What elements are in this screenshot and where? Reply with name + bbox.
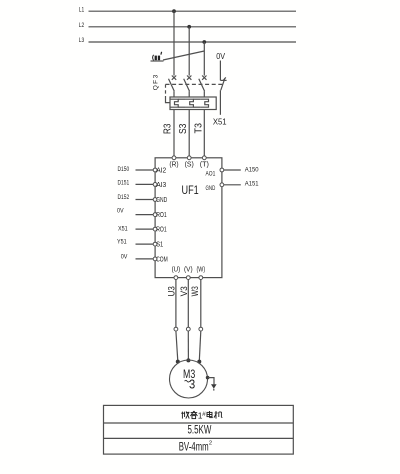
char dian <box>207 411 213 418</box>
terminal circle W3 <box>199 327 203 331</box>
wire D152 row3 <box>118 194 154 201</box>
svg-text:0V: 0V <box>216 52 225 61</box>
svg-text:A150: A150 <box>245 167 259 174</box>
thermal overload element box <box>170 97 216 110</box>
svg-text:#: # <box>202 411 206 418</box>
pin S1 row6 <box>153 242 163 249</box>
svg-text:S1: S1 <box>156 242 163 249</box>
wire 0V row7 <box>121 254 153 261</box>
svg-text:3: 3 <box>189 377 195 392</box>
svg-text:S3: S3 <box>178 123 189 134</box>
inverter UF1 body <box>155 158 222 278</box>
wire D150 row1 <box>118 166 154 173</box>
wire L3 to QF3 pole 3 <box>203 42 205 76</box>
QF3 linkage to thermal box <box>166 84 171 102</box>
svg-text:2: 2 <box>209 441 212 447</box>
wire L2 to QF3 pole 2 <box>188 27 190 76</box>
svg-text:(S): (S) <box>185 160 195 169</box>
ground <box>211 384 217 390</box>
svg-text:QF3: QF3 <box>152 74 159 90</box>
svg-text:A151: A151 <box>245 181 259 188</box>
svg-text:X51: X51 <box>213 117 227 126</box>
wire A151 <box>224 181 259 188</box>
trip linkage diagonal <box>163 51 204 60</box>
wire W3 to motor <box>199 331 201 361</box>
svg-text:D152: D152 <box>118 194 130 201</box>
svg-text:AI3: AI3 <box>156 182 166 189</box>
pin AO1 <box>206 168 224 177</box>
wire QF3 aux to X51 <box>219 90 221 115</box>
svg-text:0V: 0V <box>117 207 124 214</box>
table row1 value label motor name (CJK approximated) <box>181 411 222 421</box>
svg-text:AI2: AI2 <box>156 168 166 175</box>
breaker QF3 pole 3 contact <box>199 76 207 98</box>
wire U3 to motor <box>176 331 178 361</box>
junction dot L1 <box>172 9 176 13</box>
junction dot L2 <box>187 25 191 29</box>
svg-text:GND: GND <box>206 185 216 192</box>
ground wire <box>208 378 214 385</box>
wire R3 <box>173 110 175 158</box>
svg-text:U3: U3 <box>167 286 177 296</box>
wire L1 <box>89 10 297 12</box>
motor ground connection dot <box>206 376 210 380</box>
svg-text:BV-4mm: BV-4mm <box>179 441 209 454</box>
table row3 value label BV-4mm2 <box>179 441 212 454</box>
wire T3 <box>203 110 205 158</box>
breaker QF3 auxiliary contact <box>220 77 226 90</box>
motor connection dot U <box>176 360 180 364</box>
thermal element bridge 1 <box>178 99 185 107</box>
wire 0V to QF3 aux contact <box>219 61 221 81</box>
svg-text:(V): (V) <box>184 267 193 274</box>
motor M3 label <box>183 367 195 392</box>
svg-text:L2: L2 <box>79 22 85 29</box>
pin RO1 row5 <box>153 227 167 234</box>
svg-text:(U): (U) <box>172 267 181 274</box>
text 1# <box>198 411 206 421</box>
svg-text:D151: D151 <box>118 180 130 187</box>
svg-text:UF1: UF1 <box>182 183 199 197</box>
char juan <box>190 411 197 419</box>
svg-text:W3: W3 <box>190 286 200 296</box>
svg-text:(W): (W) <box>197 267 206 274</box>
svg-text:Y51: Y51 <box>117 238 127 245</box>
svg-text:5.5KW: 5.5KW <box>188 422 212 436</box>
svg-text:0V: 0V <box>121 254 128 261</box>
motor M3 body <box>170 360 208 398</box>
pin RO1 row4 <box>153 212 167 219</box>
spec table frame <box>104 405 294 454</box>
wire W3 <box>200 280 202 328</box>
svg-text:L1: L1 <box>79 6 85 13</box>
svg-text:AO1: AO1 <box>206 170 216 177</box>
char ji <box>214 411 222 419</box>
junction dot L3 <box>202 40 206 44</box>
thermal element pole 1 <box>170 99 178 107</box>
wire U3 <box>175 280 177 328</box>
svg-text:T3: T3 <box>194 123 205 134</box>
pin GND row3 <box>153 197 167 204</box>
svg-text:R3: R3 <box>163 123 174 134</box>
wire V3 to motor <box>187 331 189 361</box>
wire X51 row5 <box>118 225 153 232</box>
wire S3 <box>188 110 190 158</box>
svg-text:RO1: RO1 <box>156 212 167 219</box>
thermal element pole 2 <box>185 99 193 107</box>
char shou <box>181 411 189 418</box>
svg-text:GND: GND <box>156 197 167 204</box>
pin GND right <box>206 183 224 192</box>
breaker QF3 trip unit symbol Iu <box>151 52 164 61</box>
terminal (W) <box>197 267 206 280</box>
svg-text:COM: COM <box>156 256 168 263</box>
terminal (R) <box>169 156 179 169</box>
svg-text:X51: X51 <box>118 225 128 232</box>
breaker QF3 pole 1 contact <box>169 76 177 98</box>
pin AI2 row1 <box>153 168 166 175</box>
svg-text:(R): (R) <box>169 160 179 169</box>
terminal (T) <box>200 156 210 169</box>
thermal element bridge 2 <box>193 99 200 107</box>
pin AI3 row2 <box>153 182 166 189</box>
svg-text:L3: L3 <box>79 37 85 44</box>
motor connection dot V <box>186 358 190 362</box>
wire Y51 row6 <box>117 238 153 245</box>
terminal circle V3 <box>186 327 190 331</box>
wire V3 <box>187 280 189 328</box>
pin COM row7 <box>153 256 168 263</box>
QF3 mechanical linkage dashed line <box>166 83 223 85</box>
thermal element pole 3 <box>200 99 208 107</box>
breaker QF3 pole 2 contact <box>184 76 192 98</box>
svg-text:RO1: RO1 <box>156 227 167 234</box>
terminal (U) <box>172 267 181 280</box>
wire L2 <box>89 26 297 28</box>
wire D151 row2 <box>118 180 154 187</box>
wire L1 to QF3 pole 1 <box>173 11 175 75</box>
wire 0V row4 <box>117 207 153 214</box>
motor connection dot W <box>197 360 201 364</box>
terminal (V) <box>184 267 193 280</box>
terminal (S) <box>185 156 195 169</box>
terminal circle U3 <box>174 327 178 331</box>
svg-text:V3: V3 <box>179 286 189 296</box>
svg-text:(T): (T) <box>200 160 210 169</box>
wire L3 <box>89 41 297 43</box>
wire A150 <box>224 167 259 174</box>
svg-text:D150: D150 <box>118 166 130 173</box>
